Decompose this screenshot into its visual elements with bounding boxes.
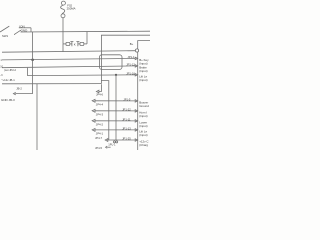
switch SW1 arm [15, 30, 21, 34]
svg-text:JP1-16: JP1-16 [126, 71, 135, 75]
fuse F02 element [61, 5, 65, 13]
wire JP4-7 to JP1-25 [108, 139, 135, 141]
wire K-network left drop [62, 32, 64, 44]
svg-text:JP4-6: JP4-6 [96, 92, 104, 96]
svg-text:(Input): (Input) [139, 78, 147, 82]
svg-text:JP1-11: JP1-11 [122, 117, 131, 121]
pin arrow JP1-16 [135, 74, 137, 76]
wire [78, 43, 80, 45]
connector pin JP4-7 arrow [105, 139, 108, 142]
wire JP4-6 branch [99, 84, 102, 91]
svg-text:(out JP2-2: (out JP2-2 [4, 68, 17, 72]
wire ION to bus jog [30, 28, 32, 32]
switch SW1 lever wire [0, 26, 9, 32]
svg-text:(Input): (Input) [139, 69, 147, 73]
svg-text:(Input): (Input) [139, 114, 147, 118]
svg-text:(Input): (Input) [139, 124, 147, 128]
connector arrow JB-2 [13, 92, 15, 95]
wire JP4-5 stub [107, 146, 110, 148]
svg-text:-3: -3 [0, 74, 3, 77]
svg-text:JP1-22: JP1-22 [122, 107, 131, 111]
wire JP4-4 to JP1-5 [95, 100, 135, 102]
svg-text:(Charg: (Charg [139, 143, 148, 147]
svg-text:JP4-1: JP4-1 [96, 132, 104, 136]
svg-text:B+: B+ [130, 42, 134, 46]
wire JB-2 stub [15, 93, 32, 95]
connector pin JP4-2 arrow [92, 119, 95, 122]
pin arrow JP1-5 [135, 100, 137, 102]
svg-text:GND JB-3: GND JB-3 [1, 98, 15, 102]
svg-text:JP1-1: JP1-1 [128, 55, 136, 59]
svg-text:SW1: SW1 [2, 34, 9, 38]
svg-text:1PL-1: 1PL-1 [108, 143, 116, 147]
capacitor plate left stem [71, 42, 73, 47]
svg-text:JP4-5: JP4-5 [95, 146, 103, 150]
wire H2 to right edge [101, 35, 150, 83]
wire JP4-2 to JP1-11 [95, 120, 135, 122]
wire GND bus H1 [21, 30, 151, 33]
svg-text:JB-2: JB-2 [16, 87, 22, 91]
connector pin JP4-3 arrow [92, 109, 95, 112]
contact K right terminal box [80, 42, 84, 45]
pin arrow JP1-12 [135, 65, 137, 67]
wire vertical bus from switch [32, 32, 34, 94]
inline connector 1PL-1 circles [113, 141, 115, 143]
capacitor plate left cap [70, 41, 73, 43]
svg-text:*+12v JB-1: *+12v JB-1 [2, 78, 16, 82]
wire H4 JP1-1 [2, 58, 135, 60]
svg-text:JP4-7: JP4-7 [95, 136, 103, 140]
contact K left terminal box [66, 42, 70, 45]
svg-text:JP4-4: JP4-4 [96, 103, 104, 107]
wire H3 B+ feed [2, 51, 135, 53]
connector pin JP4-5 arrow [106, 146, 108, 148]
svg-text:JP4-3: JP4-3 [96, 113, 104, 117]
controller box edge upper [138, 41, 150, 49]
wire [84, 43, 87, 45]
svg-text:1: 1 [0, 59, 2, 62]
svg-text:K: K [74, 42, 76, 46]
svg-text:(Input): (Input) [139, 133, 147, 137]
capacitor plate right stem [77, 42, 79, 47]
fuse F02 top terminal [61, 1, 65, 5]
connector pin B+ circle [135, 49, 138, 52]
wire vertical V116 [115, 75, 117, 140]
pin arrow JP1-13 [135, 129, 137, 131]
wire [70, 43, 72, 45]
fuse F02 bottom terminal [61, 14, 65, 18]
connector pin JP4-6 arrow [96, 90, 99, 93]
pin arrow JP1-25 [135, 139, 137, 141]
svg-text:JP1-13: JP1-13 [122, 126, 131, 130]
controller box top edge [137, 52, 139, 150]
svg-text:JP4-2: JP4-2 [96, 123, 104, 127]
connector pin JP4-4 arrow [92, 99, 95, 102]
wire ION stub [19, 27, 31, 29]
wire H5 JP1-12 [2, 66, 135, 68]
wire H6 JP1-16 [27, 74, 135, 77]
wire JP4-3 to JP1-22 [95, 110, 135, 112]
wire H7 +12v JB-1 [2, 83, 101, 85]
pin arrow JP1-22 [135, 110, 137, 112]
svg-text:JP1-5: JP1-5 [123, 97, 131, 101]
wire vertical to bottom edge [36, 84, 38, 150]
wire stub H5 to H6 [26, 68, 28, 76]
pin arrow JP1-1 [135, 57, 137, 59]
wire [63, 43, 66, 45]
wire T-branch [101, 81, 108, 140]
svg-text:JP1-25: JP1-25 [122, 137, 131, 141]
wire fuse to bus [62, 18, 64, 32]
pin arrow JP1-11 [135, 120, 137, 122]
svg-text:250MA: 250MA [67, 7, 76, 11]
connector pin JP4-1 arrow [92, 129, 95, 132]
junction dot [115, 74, 117, 76]
switch contact dot [14, 34, 15, 35]
wire K-network right drop [86, 31, 88, 44]
svg-text:JP1-12: JP1-12 [126, 63, 135, 67]
harness box [99, 55, 122, 70]
wire K to B+ line [62, 44, 64, 52]
capacitor plate right cap [76, 41, 79, 43]
svg-text:Ground: Ground [139, 104, 149, 108]
svg-text:GND: GND [21, 29, 29, 33]
wire JP4-1 to JP1-13 [95, 129, 135, 131]
junction dot [31, 59, 34, 62]
